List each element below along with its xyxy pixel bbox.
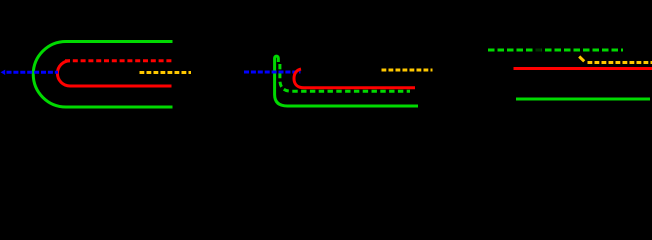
- panel 1: blue dashed primer line: [7, 71, 59, 74]
- panel 3: faded dash artifact on green dashed strand: [535, 47, 542, 54]
- panel 2: orange dashed probe: [382, 69, 433, 72]
- panel 2: blue dashed primer line: [244, 71, 301, 74]
- panel 3: orange dashed probe horizontal: [588, 61, 652, 64]
- panel 1: red hairpin dashed top strand: [65, 59, 173, 62]
- panel 3: green dashed strand (top): [488, 49, 623, 52]
- panel 1: red hairpin solid bottom + left turn: [57, 61, 171, 86]
- panel 1: orange dashed probe: [140, 71, 192, 74]
- panel 2: green template strand (solid J with top curl): [275, 56, 418, 106]
- panel 1: blue primer arrowhead pointing left: [1, 70, 6, 75]
- panel 1: green template loop (solid U open right): [33, 42, 172, 108]
- panel 2: green dashed complementary strand: [280, 64, 410, 91]
- panel 3: red solid strand: [514, 67, 652, 70]
- panel 2: red strand with curled tip: [294, 69, 415, 88]
- panel 3: green solid strand (bottom): [516, 98, 650, 101]
- panel 3: orange probe diagonal tick: [579, 57, 584, 62]
